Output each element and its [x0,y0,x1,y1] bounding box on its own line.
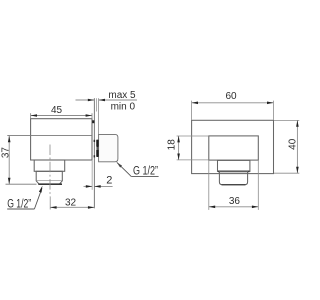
outlet nut side view [34,160,64,171]
wall line contact ticks [94,140,96,142]
svg-text:36: 36 [229,196,241,207]
nut bottom thick edge [218,170,249,172]
body side view [31,119,92,160]
36 left extension [208,160,210,210]
front view inner rect [209,136,258,160]
dimension 2 right segment [94,185,112,187]
svg-text:min 0: min 0 [111,102,136,113]
svg-text:18: 18 [166,139,177,151]
36 right extension [257,160,259,210]
outlet thread side view [36,171,62,184]
svg-text:2: 2 [106,175,112,187]
front thread bottom edge [222,184,246,186]
18 top extension / inner top ext [177,135,209,137]
dimension 45 line [31,115,92,117]
dimension 32 line [50,206,94,208]
svg-text:37: 37 [0,147,11,159]
max5/min0 dimension right segment [99,99,138,101]
40 top extension [274,119,299,121]
40 bottom extension [274,172,299,174]
G 1/2 left leader diagonal [34,188,42,209]
dimension 32 left extension [49,197,51,210]
wall line [93,98,95,208]
dimension 40 line [296,120,298,173]
dimension 45 right extension [91,113,93,119]
svg-text:32: 32 [65,197,77,208]
body interior line / 37 top extension [7,135,92,137]
extension line below body rear [91,160,93,190]
front view outer rect [192,120,274,173]
dimension 18 arrows [177,136,180,143]
dimension 37 line [8,136,10,184]
dimension 18 line [178,136,180,160]
flange front extension line [98,98,100,134]
front view thread [219,171,247,184]
37 bottom extension line [6,183,37,185]
dimension 45 left extension [30,113,32,118]
svg-text:45: 45 [51,105,63,116]
extension line mid wall [95,98,97,111]
60 right extension [272,101,274,120]
dimension 60 arrows [192,102,199,105]
dimension 37 arrows [8,136,11,143]
thread relief line [37,180,62,182]
flange behind wall [99,134,118,161]
max5/min0 dimension left segment [76,99,95,101]
dimension 32 arrows [50,206,57,209]
svg-text:max 5: max 5 [108,90,136,101]
svg-text:60: 60 [225,91,237,102]
dimension 40 arrows [296,120,299,127]
dimension 60 line [192,102,274,104]
dimension 36 arrows [209,206,216,209]
G 1/2 left leader arrow [39,186,43,193]
G 1/2 left underline [7,208,34,210]
thread bottom thick edge [38,183,62,185]
svg-text:40: 40 [288,138,299,150]
outlet centerline [49,145,51,197]
svg-text:G 1/2”: G 1/2” [133,166,158,178]
dimension 45 arrows [31,114,38,117]
wall plate thick top edge [92,120,94,123]
dimension 2 left segment [84,185,93,187]
leader G 1/2 right: arrow and line [117,162,123,168]
18 bottom extension [177,159,209,161]
front view nut [218,160,250,171]
60 left extension [191,101,193,120]
dark disc at flange front [96,140,98,147]
dimension 36 line [209,206,258,208]
